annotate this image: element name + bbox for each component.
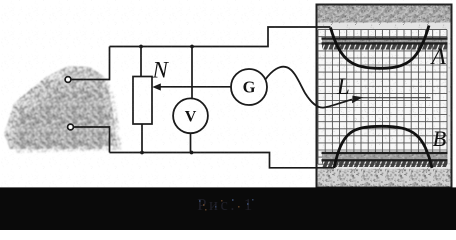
chamber bottom speckled band [318, 169, 452, 188]
beam line through chamber from L arrow [361, 97, 431, 99]
bottom plate (lower electrode bar) [322, 153, 448, 160]
arrowhead of L [352, 96, 363, 104]
svg-text:Рис. 1: Рис. 1 [197, 195, 254, 214]
voltmeter top lead [191, 47, 193, 99]
junction dot bottom rail at rheostat [140, 151, 144, 155]
junction dot top rail at rheostat [139, 45, 143, 49]
grid (graph paper) inside chamber [318, 30, 447, 165]
chamber top hatched band [318, 6, 452, 30]
voltmeter V [173, 98, 208, 133]
voltmeter bottom lead [190, 133, 192, 153]
rheostat N body [133, 77, 152, 125]
wire upper terminal to top rail [71, 47, 110, 80]
left grey scan-noise blob [4, 66, 122, 153]
junction dot bottom rail at voltmeter branch [190, 151, 194, 155]
chamber body (discharge tube enclosure) [317, 5, 452, 188]
curved electrode B (dome over bottom plate) [334, 126, 432, 168]
wire lower terminal to bottom rail [74, 127, 110, 153]
rheostat wiper wire to galvanometer [158, 86, 232, 88]
terminal upper [65, 77, 71, 83]
junction dot top rail at voltmeter branch [190, 45, 194, 49]
rheostat bottom lead [141, 124, 143, 153]
top plate (upper electrode bar) [322, 39, 448, 50]
wire bottom rail to chamber electrode B [110, 153, 335, 168]
curved electrode A (arc under top plate) [331, 26, 430, 69]
terminal lower [68, 124, 74, 130]
rheostat top lead [140, 47, 142, 77]
hatching under bottom plate [322, 161, 448, 167]
wiper arrowhead [152, 83, 161, 90]
wire top rail to chamber electrode A [110, 27, 331, 47]
faint scan noise over white areas [0, 0, 456, 187]
caption black bar [0, 187, 456, 230]
chamber outline [317, 5, 452, 188]
wavy wire from G into chamber (beam L) [265, 67, 352, 108]
galvanometer G [231, 69, 267, 105]
